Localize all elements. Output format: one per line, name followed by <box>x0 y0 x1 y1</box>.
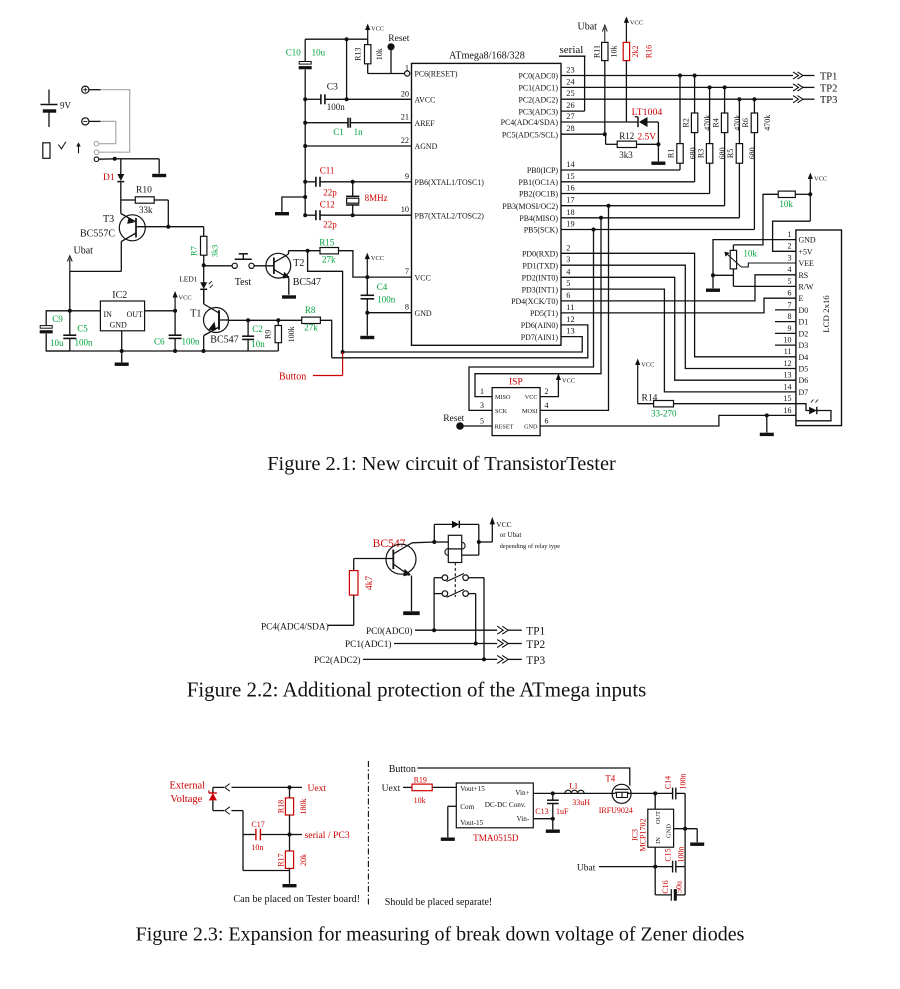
svg-text:R1: R1 <box>667 149 676 158</box>
serial connector label <box>559 44 586 111</box>
VCC arrow (R16) <box>624 16 643 42</box>
resistor 4k7 (fig2.2) <box>349 559 375 626</box>
svg-text:20: 20 <box>401 89 409 98</box>
svg-text:R10: R10 <box>136 186 152 196</box>
svg-text:C12: C12 <box>320 200 335 210</box>
resistor R15 27k <box>289 237 368 277</box>
svg-text:Figure 2.2: Additional protect: Figure 2.2: Additional protection of the… <box>187 678 647 702</box>
svg-text:15: 15 <box>566 172 574 181</box>
svg-text:3k3: 3k3 <box>209 245 219 258</box>
wire PB0 row <box>561 169 680 171</box>
node PC4 (fig2.2) <box>261 621 354 632</box>
svg-text:33k: 33k <box>139 205 153 215</box>
capacitor C12 22p <box>303 200 411 230</box>
svg-text:9: 9 <box>788 324 792 333</box>
svg-text:11: 11 <box>566 303 574 312</box>
svg-text:8MHz: 8MHz <box>365 193 388 203</box>
svg-text:PB4(MISO): PB4(MISO) <box>519 214 558 223</box>
svg-text:R7: R7 <box>189 246 199 256</box>
svg-text:1n: 1n <box>354 127 364 137</box>
svg-text:5: 5 <box>788 277 792 286</box>
svg-text:PD6(AIN0): PD6(AIN0) <box>521 321 559 330</box>
resistor R9 100k <box>264 320 297 351</box>
svg-text:Com: Com <box>460 803 474 811</box>
connector TP2 <box>793 83 837 94</box>
pin 19 PB5(SCK) <box>524 220 575 235</box>
wire AGND <box>303 144 411 148</box>
svg-text:16: 16 <box>566 184 574 193</box>
label Uext (fig2.3 right) <box>382 783 401 794</box>
wire R10 to T3 base row <box>166 200 170 229</box>
svg-text:10k: 10k <box>779 199 793 209</box>
capacitor C2 10n <box>242 320 265 351</box>
pin 1 PC6(RESET) <box>405 64 458 79</box>
LCD pin 11 <box>784 347 808 362</box>
svg-text:680: 680 <box>748 147 757 159</box>
wire MISO column <box>475 218 601 397</box>
pin 22 AGND <box>401 136 438 151</box>
svg-text:PC4(ADC4/SDA): PC4(ADC4/SDA) <box>501 118 559 127</box>
wire IC3 GND (fig2.3) <box>674 827 698 843</box>
wire T2 collector to PD7 net <box>308 251 345 354</box>
svg-text:8: 8 <box>788 312 792 321</box>
wire battery minus to jack (gray) <box>99 121 116 143</box>
svg-text:L1: L1 <box>569 782 578 791</box>
LCD pin 5 <box>788 277 814 292</box>
svg-text:3: 3 <box>480 401 484 410</box>
svg-text:C16: C16 <box>661 880 670 893</box>
node PC2(ADC2) to TP3 (fig2.2) <box>314 655 545 667</box>
svg-text:R4: R4 <box>711 118 720 127</box>
resistor R3 680 <box>696 85 727 193</box>
svg-text:R17: R17 <box>276 853 285 866</box>
svg-text:PB0(ICP): PB0(ICP) <box>527 166 559 175</box>
svg-text:9: 9 <box>405 172 409 181</box>
wire T4 drain row (fig2.3) <box>631 791 673 795</box>
svg-text:19: 19 <box>566 220 574 229</box>
svg-text:ATmega8/168/328: ATmega8/168/328 <box>449 51 525 62</box>
svg-text:10k: 10k <box>414 796 426 805</box>
Button label (red) <box>279 352 343 383</box>
svg-text:BC557C: BC557C <box>80 228 115 239</box>
svg-text:4: 4 <box>545 401 549 410</box>
svg-text:14: 14 <box>566 160 575 169</box>
pin 5 PD3(INT1) <box>522 279 571 294</box>
ground (fig2.3 left) <box>283 884 297 887</box>
svg-text:PD4(XCK/T0): PD4(XCK/T0) <box>511 297 558 306</box>
svg-text:7: 7 <box>788 300 792 309</box>
svg-text:3: 3 <box>788 253 792 262</box>
ground (T2) <box>282 295 296 298</box>
resistor R8 27k <box>302 305 332 358</box>
wire Ubat row (fig2.3) <box>599 847 657 895</box>
wire T3 base to R7 <box>136 226 204 228</box>
pin 4 PD2(INT0) <box>522 267 572 282</box>
LCD pin 16 <box>784 406 796 416</box>
pin 16 PB2(OC1B) <box>519 184 575 199</box>
node PC1(ADC1) to TP2 (fig2.2) <box>345 639 545 651</box>
resistor R16 2k2 (red) <box>623 42 653 122</box>
resistor R19 10k (fig2.3) <box>403 775 456 805</box>
svg-text:1: 1 <box>788 230 792 239</box>
pin 24 PC1(ADC1) <box>519 77 576 92</box>
svg-text:TP2: TP2 <box>820 83 838 94</box>
svg-text:or Ubat: or Ubat <box>500 531 522 539</box>
svg-text:C13: C13 <box>535 807 548 816</box>
LED1 <box>179 265 213 303</box>
svg-text:PB2(OC1B): PB2(OC1B) <box>519 190 558 199</box>
svg-text:T1: T1 <box>190 308 201 319</box>
svg-text:VCC: VCC <box>641 362 654 369</box>
label serial / PC3 (fig2.3) <box>305 830 350 841</box>
ground (LCD pin16) <box>760 415 774 436</box>
capacitor C3 100n <box>303 83 411 113</box>
svg-text:D5: D5 <box>799 365 809 374</box>
svg-text:GND: GND <box>110 321 128 330</box>
transistor T1 BC547 <box>190 289 238 351</box>
svg-text:12: 12 <box>784 359 792 368</box>
svg-text:14: 14 <box>784 382 792 391</box>
svg-text:1uF: 1uF <box>556 807 569 816</box>
svg-text:Vin-: Vin- <box>517 815 530 823</box>
svg-text:Reset: Reset <box>388 34 409 44</box>
svg-text:TMA0515D: TMA0515D <box>473 833 519 843</box>
svg-text:Vout-15: Vout-15 <box>460 819 483 827</box>
svg-text:PD0(RXD): PD0(RXD) <box>522 250 558 259</box>
svg-text:LED1: LED1 <box>179 275 198 284</box>
wire PD1 to LCD D5 <box>561 265 796 368</box>
svg-text:100n: 100n <box>679 774 688 790</box>
wire PD4 to LCD RS <box>561 275 796 301</box>
svg-text:External: External <box>170 780 206 791</box>
capacitor C9 10u <box>40 311 70 351</box>
svg-text:BC547: BC547 <box>373 537 406 550</box>
svg-text:25: 25 <box>566 89 574 98</box>
svg-text:6: 6 <box>788 289 792 298</box>
svg-text:C17: C17 <box>251 820 264 829</box>
caption figure 2.1 <box>267 453 616 475</box>
svg-text:100n: 100n <box>182 337 201 347</box>
svg-text:PC6(RESET): PC6(RESET) <box>415 70 458 79</box>
svg-text:13: 13 <box>566 327 574 336</box>
pin 25 PC2(ADC2) <box>519 89 575 104</box>
svg-text:Figure 2.1: New circuit of Tra: Figure 2.1: New circuit of TransistorTes… <box>267 453 616 475</box>
LCD pin 2 <box>788 242 813 257</box>
wire PB1 row <box>561 181 695 183</box>
LCD pin 14 <box>784 382 809 397</box>
ground (LT1004) <box>651 162 665 165</box>
wire PD6 long net <box>332 325 588 358</box>
resistor R13 10k <box>353 39 384 73</box>
wire TP1 row <box>561 75 793 77</box>
svg-text:PC2(ADC2): PC2(ADC2) <box>519 95 559 104</box>
svg-text:TP3: TP3 <box>526 655 545 667</box>
VCC arrow (IC2 out) <box>173 291 192 311</box>
svg-text:10k: 10k <box>743 249 757 259</box>
ground (IC3) <box>690 843 704 846</box>
svg-text:IN: IN <box>104 310 113 319</box>
connector TP3 <box>793 95 837 106</box>
svg-text:C5: C5 <box>77 324 88 334</box>
svg-text:PB5(SCK): PB5(SCK) <box>524 226 559 235</box>
svg-text:VCC: VCC <box>415 273 431 282</box>
Ubat label arrow (R11) <box>578 22 608 43</box>
pin 12 PD6(AIN0) <box>521 315 575 330</box>
wire SCK column <box>469 230 594 411</box>
transistor T4 IRFU9024 <box>599 774 633 816</box>
label should be placed (fig2.3) <box>385 897 492 908</box>
wire IC2 OUT to VCC node <box>145 309 178 313</box>
svg-text:10: 10 <box>401 205 409 214</box>
svg-text:D1: D1 <box>103 173 115 183</box>
wire Uext top row (fig2.3) <box>213 784 302 792</box>
svg-text:Should be placed separate!: Should be placed separate! <box>385 897 492 908</box>
crystal Q1 8MHz <box>346 182 388 215</box>
wire VCC pin7 row <box>367 276 411 278</box>
LCD pin 1 <box>788 230 816 245</box>
svg-text:D1: D1 <box>799 318 809 327</box>
svg-text:100n: 100n <box>377 295 396 305</box>
wire Button to T4 gate <box>417 768 629 786</box>
svg-text:13: 13 <box>784 371 792 380</box>
svg-text:Uext: Uext <box>308 783 327 794</box>
svg-text:C6: C6 <box>154 337 165 347</box>
svg-text:TP1: TP1 <box>526 626 545 638</box>
svg-text:VCC: VCC <box>630 20 643 27</box>
LCD pin 9 <box>775 324 808 339</box>
svg-text:27k: 27k <box>322 255 336 265</box>
svg-text:T2: T2 <box>293 258 304 269</box>
svg-text:serial: serial <box>560 44 584 56</box>
ground (DC-DC Com) <box>441 838 455 841</box>
resistor R7 3k3 <box>189 227 220 268</box>
svg-text:DC-DC Conv.: DC-DC Conv. <box>485 801 526 809</box>
svg-text:22: 22 <box>401 136 409 145</box>
diode flyback (fig2.2) <box>434 521 479 555</box>
ground (IC2) <box>115 363 129 366</box>
wire PD0 to LCD D4 <box>561 253 796 356</box>
svg-text:GND: GND <box>415 309 432 318</box>
wire contacts left (fig2.2) <box>432 578 442 633</box>
wire VCC to LCD +5V <box>773 221 811 251</box>
capacitor C17 10n (fig2.3) <box>243 820 265 852</box>
pin 28 PC5(ADC5/SCL) <box>502 124 575 139</box>
LCD pin 13 <box>784 371 809 386</box>
label Ubat (fig2.3) <box>577 864 596 874</box>
svg-text:PB7(XTAL2/TOSC2): PB7(XTAL2/TOSC2) <box>415 211 485 220</box>
battery plus terminal <box>82 86 101 93</box>
pin 9 PB6(XTAL1/TOSC1) <box>405 172 484 187</box>
svg-text:33-270: 33-270 <box>651 408 677 418</box>
svg-text:10u: 10u <box>312 48 326 58</box>
svg-text:PB3(MOSI/OC2): PB3(MOSI/OC2) <box>502 202 558 211</box>
power jack J1 <box>43 141 99 161</box>
wire relay VCC (fig2.2) <box>479 517 495 542</box>
svg-text:17: 17 <box>566 196 574 205</box>
wire TP2 row <box>561 86 793 88</box>
svg-text:PB1(OC1A): PB1(OC1A) <box>519 178 559 187</box>
svg-text:D6: D6 <box>799 376 809 385</box>
svg-text:PD1(TXD): PD1(TXD) <box>522 261 558 270</box>
svg-text:3k3: 3k3 <box>619 150 633 160</box>
wire LCD RW pin5 <box>733 285 796 287</box>
svg-text:VCC: VCC <box>496 520 511 529</box>
VCC arrow (top) <box>365 24 384 40</box>
svg-text:PC5(ADC5/SCL): PC5(ADC5/SCL) <box>502 130 558 139</box>
wire GND pin8 row <box>367 312 411 314</box>
wire PD2 to LCD D6 <box>561 277 796 380</box>
wire collector node (fig2.2) <box>412 540 481 544</box>
svg-text:T4: T4 <box>605 774 615 784</box>
svg-text:11: 11 <box>784 347 792 356</box>
svg-text:R16: R16 <box>644 45 653 58</box>
ISP pin numbers <box>480 387 549 425</box>
svg-text:R8: R8 <box>305 305 316 315</box>
svg-text:SCK: SCK <box>495 408 508 415</box>
pin 6 PD4(XCK/T0) <box>511 291 570 306</box>
capacitor C6 100n <box>154 311 200 351</box>
svg-text:MCP1702: MCP1702 <box>638 819 647 852</box>
svg-text:C11: C11 <box>320 165 335 175</box>
svg-text:R2: R2 <box>681 118 690 127</box>
wire PB2 row <box>561 193 710 195</box>
svg-text:ISP: ISP <box>509 378 523 388</box>
svg-text:T3: T3 <box>103 214 114 225</box>
svg-text:2: 2 <box>566 243 570 252</box>
LCD pin 4 <box>788 265 809 280</box>
svg-text:R6: R6 <box>741 118 750 127</box>
Reset node (ISP) <box>443 414 492 430</box>
resistor R1 680 <box>667 74 698 171</box>
label Button (fig2.3) <box>389 764 416 775</box>
pin 2 PD0(RXD) <box>522 243 570 258</box>
pin 10 PB7(XTAL2/TOSC2) <box>401 205 485 220</box>
transistor Q BC547 (fig2.2) <box>354 537 416 611</box>
resistor R11 10k <box>593 42 619 136</box>
svg-text:MOSI: MOSI <box>522 408 537 415</box>
svg-text:15: 15 <box>784 394 792 403</box>
svg-text:LCD 2x16: LCD 2x16 <box>821 295 831 333</box>
svg-text:RS: RS <box>799 271 809 280</box>
label can be placed (fig2.3) <box>233 894 360 905</box>
svg-text:1: 1 <box>405 64 409 73</box>
pin 20 AVCC <box>401 89 436 104</box>
svg-text:100k: 100k <box>287 326 296 342</box>
svg-text:C15: C15 <box>663 848 672 861</box>
svg-text:PC4(ADC4/SDA): PC4(ADC4/SDA) <box>261 621 329 632</box>
svg-text:R12: R12 <box>619 131 634 141</box>
svg-text:1: 1 <box>480 387 484 396</box>
wire lower contact (fig2.3) <box>213 807 290 871</box>
wire PD3 to LCD D7 <box>561 289 796 392</box>
svg-text:2: 2 <box>788 242 792 251</box>
svg-text:TP2: TP2 <box>526 639 545 651</box>
LCD pin 10 <box>775 336 808 351</box>
ground (fig2.2 emitter) <box>403 611 420 615</box>
capacitor C10 10u <box>286 39 326 99</box>
wire PB4 row <box>561 216 739 220</box>
svg-text:100n: 100n <box>327 102 346 112</box>
svg-text:12: 12 <box>566 315 574 324</box>
capacitor C14 100n (fig2.3) <box>663 774 687 867</box>
wire serial/PC3 row (fig2.3) <box>260 834 302 836</box>
svg-text:10u: 10u <box>50 338 64 348</box>
svg-text:VCC: VCC <box>371 255 384 262</box>
capacitor C15 100n (fig2.3) <box>655 847 685 873</box>
svg-text:R13: R13 <box>353 48 362 61</box>
svg-text:R/W: R/W <box>799 283 814 292</box>
connector LCD 2x16 <box>796 230 842 426</box>
connector TP1 <box>793 72 837 83</box>
LCD pin 6 <box>788 289 804 304</box>
wire PD5 to LCD E <box>561 298 796 313</box>
svg-text:TP3: TP3 <box>820 95 838 106</box>
svg-text:9V: 9V <box>60 101 72 111</box>
wire IC2 GND <box>121 331 123 363</box>
pin 8 GND <box>405 303 432 318</box>
node PC0(ADC0) to TP1 (fig2.2) <box>366 626 545 638</box>
svg-text:22p: 22p <box>323 187 337 197</box>
ground (C13) <box>546 830 560 833</box>
pushbutton Test <box>204 254 274 288</box>
LCD pin 7 <box>775 300 808 315</box>
svg-text:PD3(INT1): PD3(INT1) <box>522 285 559 294</box>
svg-text:Ubat: Ubat <box>577 864 596 874</box>
caption figure 2.3 <box>136 924 745 946</box>
resistor R5 680 <box>726 97 757 218</box>
svg-text:VCC: VCC <box>525 394 538 401</box>
svg-text:serial / PC3: serial / PC3 <box>305 830 350 841</box>
wire VCC top rail <box>305 37 368 41</box>
svg-text:C14: C14 <box>663 776 672 789</box>
ground (crystal caps) <box>282 195 307 212</box>
svg-text:VCC: VCC <box>371 26 384 33</box>
svg-text:16: 16 <box>784 406 792 415</box>
wire ISP GND to LCD gnd net <box>540 413 796 426</box>
svg-text:24: 24 <box>566 77 575 86</box>
svg-text:PD5(T1): PD5(T1) <box>530 309 558 318</box>
wire PC5 row <box>561 133 605 135</box>
caption figure 2.2 <box>187 678 647 702</box>
svg-text:20k: 20k <box>299 854 308 866</box>
svg-text:R19: R19 <box>414 775 427 784</box>
svg-text:PC2(ADC2): PC2(ADC2) <box>314 655 361 666</box>
svg-text:D4: D4 <box>799 353 809 362</box>
regulator IC2 <box>100 290 144 331</box>
resistor R18 180k (fig2.3) <box>276 787 308 836</box>
separator dash-dot line <box>367 761 369 905</box>
wire T3 collector to regulator input <box>70 271 122 335</box>
svg-text:10k: 10k <box>375 48 384 60</box>
svg-text:3: 3 <box>566 255 570 264</box>
wire PB5 row <box>561 228 754 232</box>
capacitor C5 100n <box>63 324 93 352</box>
svg-text:7: 7 <box>405 267 409 276</box>
svg-text:MISO: MISO <box>495 394 511 401</box>
pin 18 PB4(MISO) <box>519 208 574 223</box>
svg-text:AREF: AREF <box>415 119 436 128</box>
svg-text:PC1(ADC1): PC1(ADC1) <box>345 639 392 650</box>
capacitor C4 100n <box>361 277 396 336</box>
svg-text:Voltage: Voltage <box>170 794 202 805</box>
svg-text:Test: Test <box>235 277 252 288</box>
VCC arrow (LCD) <box>808 173 827 222</box>
resistor R6 470k <box>741 97 772 229</box>
resistor R14 33-270 <box>638 393 796 418</box>
svg-text:GND: GND <box>665 824 672 838</box>
pin 3 PD1(TXD) <box>522 255 570 270</box>
trimmer 10k contrast <box>713 245 796 287</box>
